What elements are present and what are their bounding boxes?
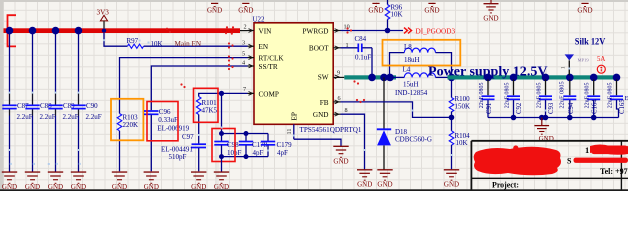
output bottom rail <box>488 117 619 119</box>
svg-text:GND: GND <box>368 6 383 14</box>
junction bottom rail C98 <box>219 154 224 159</box>
svg-text:CDBC560-G: CDBC560-G <box>395 136 432 144</box>
svg-text:FB: FB <box>320 99 329 107</box>
ERC marker SW <box>353 80 359 84</box>
top ground 3 <box>368 3 383 14</box>
pin 9 SW <box>318 70 345 82</box>
svg-text:SS/TR: SS/TR <box>259 63 278 71</box>
ground for R104 <box>444 170 459 189</box>
capacitor C164 <box>585 74 601 121</box>
sheet border bottom <box>0 189 628 191</box>
ground for C97 <box>191 172 206 191</box>
svg-text:U22: U22 <box>253 15 266 23</box>
svg-text:C98: C98 <box>227 141 239 149</box>
svg-text:4: 4 <box>242 59 245 66</box>
svg-text:IND-12854: IND-12854 <box>395 89 428 97</box>
pin 1 BOOT <box>309 42 349 53</box>
capacitor C89 <box>48 102 78 121</box>
ground for C88 <box>25 172 40 191</box>
svg-text:GND: GND <box>71 183 86 191</box>
svg-text:R97: R97 <box>127 37 139 45</box>
junction SW/L8 <box>386 74 394 82</box>
wire PWRGD <box>341 30 404 32</box>
port DI_PGOOD3 <box>404 27 455 35</box>
net label stub E at right edge <box>625 95 628 102</box>
inductor L8 (parallel) <box>390 43 452 78</box>
resistor R97 <box>127 37 163 48</box>
wire C87 branch <box>9 33 11 172</box>
svg-text:GND: GND <box>377 181 392 189</box>
svg-text:22uF 0805: 22uF 0805 <box>505 82 511 108</box>
svg-text:GND: GND <box>214 183 229 191</box>
ERC marker bus mid <box>166 28 171 33</box>
svg-text:DI_PGOOD3: DI_PGOOD3 <box>416 27 456 35</box>
wire EN drop from bus <box>104 33 127 46</box>
wire SS/TR <box>151 66 247 110</box>
svg-text:GND: GND <box>483 15 498 23</box>
svg-text:Tel: +97: Tel: +97 <box>600 167 628 176</box>
title Power supply 12.5V <box>428 64 548 79</box>
junction top rail C98 <box>219 131 224 136</box>
capacitor C93 <box>537 74 556 121</box>
svg-text:9: 9 <box>337 70 340 77</box>
svg-text:GND: GND <box>238 6 253 14</box>
ERC marker pin3 <box>228 42 234 48</box>
svg-text:GND: GND <box>191 183 206 191</box>
svg-text:4pF: 4pF <box>253 149 264 157</box>
red highlight box C96 <box>147 102 178 141</box>
capacitor C92 <box>505 74 524 121</box>
capacitor C91 <box>479 74 495 118</box>
net label Main EN <box>175 40 202 48</box>
svg-text:BOOT: BOOT <box>309 45 329 53</box>
capacitor C96 <box>144 108 190 172</box>
svg-text:220K: 220K <box>123 121 139 129</box>
sheet border left <box>0 0 4 191</box>
capacitor C98 <box>214 134 241 158</box>
top ground 2 <box>238 3 253 14</box>
svg-text:510pF: 510pF <box>169 153 187 161</box>
resistor R101 <box>196 97 217 144</box>
top ground 1 <box>207 3 222 14</box>
current marker 5A <box>597 56 605 73</box>
svg-text:C84: C84 <box>355 35 367 43</box>
junction on bus at C87 <box>6 27 14 35</box>
VIN bus wire (thick red) <box>4 28 248 33</box>
svg-text:1: 1 <box>585 145 589 155</box>
svg-text:6: 6 <box>338 95 341 102</box>
ERC marker pin5 <box>228 55 234 61</box>
svg-text:150K: 150K <box>455 102 471 110</box>
svg-text:L4: L4 <box>403 66 411 74</box>
major grid line A <box>215 2 217 189</box>
top ground 6 <box>577 3 592 14</box>
svg-text:C94: C94 <box>568 102 575 114</box>
diode D18 <box>377 77 432 169</box>
svg-text:C93: C93 <box>548 102 555 114</box>
junction on bus at C88 <box>29 27 37 35</box>
capacitor C94 <box>559 74 577 121</box>
svg-text:0.1uF: 0.1uF <box>355 54 371 62</box>
pin 5 RT/CLK <box>242 51 284 63</box>
svg-text:4pF: 4pF <box>277 149 288 157</box>
svg-text:MP19: MP19 <box>578 58 590 63</box>
ERC marker pin2 <box>225 26 234 34</box>
major grid line B <box>545 2 547 189</box>
svg-text:GND: GND <box>25 183 40 191</box>
svg-text:5: 5 <box>242 51 245 58</box>
SW rail teal segment 1 <box>344 75 396 79</box>
junction PWRGD/R96 <box>385 28 391 34</box>
junction bottom rail C178 <box>244 154 249 159</box>
title block Project text <box>492 181 519 190</box>
capacitor C84 (BOOT) <box>341 35 373 61</box>
wire COMP cap network drop <box>222 93 269 156</box>
wire BOOT to SW <box>371 48 373 78</box>
wire C88 branch <box>32 33 34 172</box>
top ground 4 <box>424 3 439 14</box>
pin 11 EP <box>286 112 299 139</box>
svg-text:C92: C92 <box>516 102 523 114</box>
title block address line (redacted scribble) <box>567 157 628 166</box>
svg-text:2: 2 <box>244 23 247 30</box>
svg-text:2.2uF: 2.2uF <box>86 113 102 121</box>
sheet border top <box>0 0 628 2</box>
ground for C87 <box>2 172 17 191</box>
junction SW/C84 <box>368 74 376 82</box>
svg-text:GND: GND <box>313 111 329 119</box>
svg-text:Project:: Project: <box>492 181 519 190</box>
svg-text:3V3: 3V3 <box>97 9 110 17</box>
ground for C90 <box>71 172 86 191</box>
ground for C89 <box>48 172 63 191</box>
red highlight box C98 <box>212 129 235 162</box>
svg-text:3: 3 <box>242 39 245 46</box>
svg-text:0.33uF: 0.33uF <box>158 116 178 124</box>
wire EP to ground <box>294 139 341 146</box>
12V output rail teal segment 2 <box>448 75 619 79</box>
svg-text:10: 10 <box>344 24 350 31</box>
op-amp/regulator U22 TPS54561QDPRTQ1 <box>253 15 362 134</box>
svg-text:2.2uF: 2.2uF <box>40 113 56 121</box>
svg-text:1: 1 <box>562 66 567 69</box>
svg-text:5A: 5A <box>597 56 605 63</box>
svg-text:2.2uF: 2.2uF <box>63 113 79 121</box>
svg-text:18uH: 18uH <box>404 56 420 64</box>
svg-text:GND: GND <box>444 181 459 189</box>
wire RT/CLK <box>120 58 248 114</box>
svg-text:22uF 0805: 22uF 0805 <box>608 82 614 108</box>
svg-text:11: 11 <box>286 129 293 135</box>
ground for C96 <box>144 172 159 191</box>
wire GND pin 8 <box>341 114 365 169</box>
ERC marker pin10 <box>346 27 352 33</box>
top ground 5 (full) <box>483 0 498 23</box>
svg-text:GND: GND <box>207 6 222 14</box>
ground for output rail <box>534 115 553 143</box>
resistor R103 <box>117 114 138 172</box>
svg-text:22uF 0805: 22uF 0805 <box>585 82 591 108</box>
svg-text:GND: GND <box>424 6 439 14</box>
junction FB divider <box>449 115 455 121</box>
red bracket connector at left edge <box>8 15 17 46</box>
title block company name (redacted scribble) <box>585 145 628 156</box>
resistor R104 <box>449 117 470 169</box>
power port 3V3 <box>97 9 110 29</box>
red highlight box R101 <box>194 88 219 122</box>
svg-text:GND: GND <box>2 183 17 191</box>
svg-text:C91: C91 <box>486 103 493 114</box>
wire FB <box>341 102 452 118</box>
pin 2 VIN <box>244 23 273 35</box>
ground for R103 <box>112 172 127 191</box>
svg-text:8: 8 <box>345 107 348 114</box>
title block logo (redacted scribble) <box>474 145 561 175</box>
pin 8 GND <box>313 107 348 119</box>
svg-text:S: S <box>567 157 572 166</box>
capacitor C178 <box>239 134 268 158</box>
orange highlight box R103 <box>111 99 143 141</box>
svg-text:10K: 10K <box>456 139 468 147</box>
capacitor C90 <box>71 102 101 121</box>
svg-text:C179: C179 <box>277 141 293 149</box>
svg-text:PWRGD: PWRGD <box>303 27 329 35</box>
capacitor C179 <box>261 134 292 158</box>
ERC marker pin4 <box>228 64 234 70</box>
title block frame <box>471 141 628 190</box>
capacitor C97 <box>161 133 206 171</box>
capacitor C165 <box>608 74 627 118</box>
title block Tel text <box>600 167 628 176</box>
junction on bus at 3V3/EN tap <box>102 28 106 32</box>
svg-text:E: E <box>625 95 628 102</box>
svg-text:C164: C164 <box>592 99 599 114</box>
wire EN to pin 3 <box>144 45 248 47</box>
wire C90 branch <box>78 33 80 172</box>
svg-text:GND: GND <box>333 157 348 165</box>
svg-text:EL-006919: EL-006919 <box>157 124 189 132</box>
pin 3 EN <box>242 39 269 51</box>
svg-text:C96: C96 <box>159 108 171 116</box>
svg-text:C97: C97 <box>182 133 194 141</box>
power port Silk 12V <box>562 36 606 75</box>
pin 7 COMP <box>243 86 279 98</box>
junction on bus at C90 <box>75 27 83 35</box>
ground for D18 <box>377 170 392 189</box>
svg-text:TPS54561QDPRTQ1: TPS54561QDPRTQ1 <box>300 126 362 134</box>
pin 6 FB <box>320 95 341 107</box>
svg-text:2.2uF: 2.2uF <box>17 113 33 121</box>
junction rail R100 <box>448 74 456 82</box>
pin 4 SS/TR <box>242 59 278 71</box>
svg-text:15uH: 15uH <box>403 81 419 89</box>
wire COMP <box>199 93 248 96</box>
ground for COMP network <box>214 157 229 192</box>
svg-text:SW: SW <box>318 74 329 82</box>
svg-text:GND: GND <box>577 6 592 14</box>
capacitor C87 <box>2 102 32 121</box>
junction SW/D18 <box>380 74 388 82</box>
svg-text:COMP: COMP <box>259 90 279 98</box>
svg-text:Silk 12V: Silk 12V <box>575 36 606 47</box>
pin 10 PWRGD <box>303 24 350 36</box>
svg-text:L8: L8 <box>404 43 412 51</box>
svg-text:EP: EP <box>291 112 299 120</box>
svg-text:7: 7 <box>243 86 246 93</box>
svg-text:22uF 0805: 22uF 0805 <box>559 81 566 108</box>
svg-text:GND: GND <box>48 183 63 191</box>
wire C89 branch <box>55 33 57 172</box>
svg-text:22uF 0805: 22uF 0805 <box>479 82 485 108</box>
svg-text:GND: GND <box>144 183 159 191</box>
svg-text:Main EN: Main EN <box>175 40 202 48</box>
ground for pin 8 <box>357 170 372 189</box>
ERC marker EN mid <box>180 83 185 88</box>
resistor R96 <box>385 0 402 31</box>
svg-text:GND: GND <box>357 181 372 189</box>
svg-text:C90: C90 <box>86 102 98 110</box>
junction top rail C178 <box>244 131 249 136</box>
orange highlight box L8 <box>383 40 461 66</box>
svg-text:GND: GND <box>539 135 554 143</box>
svg-text:47K5: 47K5 <box>202 107 218 115</box>
svg-text:10K: 10K <box>391 10 403 18</box>
junction on bus at C89 <box>52 27 60 35</box>
capacitor C88 <box>25 102 55 121</box>
off-grid marks <box>9 39 571 165</box>
svg-text:22uF 0805: 22uF 0805 <box>537 82 543 108</box>
svg-text:VIN: VIN <box>259 27 273 35</box>
svg-text:EN: EN <box>259 43 269 51</box>
ERC marker pin6 <box>356 99 365 103</box>
ground for EP <box>333 146 348 165</box>
svg-text:GND: GND <box>112 183 127 191</box>
junction COMP network tap <box>219 91 224 96</box>
svg-text:RT/CLK: RT/CLK <box>259 55 285 63</box>
inductor L4 <box>390 66 452 97</box>
resistor R100 <box>449 77 470 117</box>
